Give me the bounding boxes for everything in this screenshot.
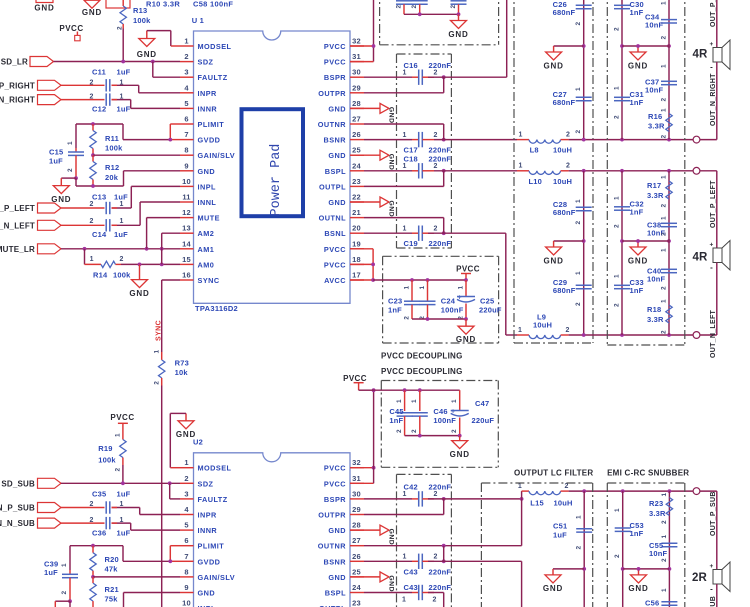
svg-text:PLIMIT: PLIMIT <box>198 120 225 129</box>
svg-text:220uF: 220uF <box>479 305 502 314</box>
svg-text:GND: GND <box>198 589 216 598</box>
svg-text:GND: GND <box>450 450 470 459</box>
svg-text:20k: 20k <box>105 173 119 182</box>
svg-text:75k: 75k <box>105 595 119 604</box>
svg-text:2: 2 <box>614 115 621 119</box>
svg-text:31: 31 <box>352 474 361 483</box>
svg-text:C35: C35 <box>92 490 106 499</box>
svg-text:GND: GND <box>544 61 564 70</box>
svg-text:C18: C18 <box>404 155 418 164</box>
svg-text:1: 1 <box>661 535 668 539</box>
svg-text:PVCC: PVCC <box>59 24 83 33</box>
svg-text:6: 6 <box>184 115 188 124</box>
svg-text:PVCC: PVCC <box>456 265 480 274</box>
svg-text:2: 2 <box>433 69 437 76</box>
svg-text:6: 6 <box>184 536 188 545</box>
svg-text:2: 2 <box>661 232 668 236</box>
svg-text:-: - <box>710 63 713 72</box>
svg-text:10uH: 10uH <box>553 177 572 186</box>
svg-text:OUT_N_RIGHT: OUT_N_RIGHT <box>710 73 717 126</box>
svg-text:INNR: INNR <box>198 104 218 113</box>
svg-text:680nF: 680nF <box>553 208 576 217</box>
svg-text:1: 1 <box>575 271 582 275</box>
svg-text:1: 1 <box>458 286 465 290</box>
svg-text:2: 2 <box>564 483 568 490</box>
svg-text:C13: C13 <box>92 193 106 202</box>
svg-text:R14: R14 <box>93 270 108 279</box>
svg-text:2: 2 <box>89 218 93 225</box>
svg-text:PVCC: PVCC <box>324 464 346 473</box>
svg-text:GND: GND <box>129 289 149 298</box>
svg-text:C24: C24 <box>441 297 456 306</box>
svg-text:100k: 100k <box>113 270 131 279</box>
svg-text:C23: C23 <box>388 297 402 306</box>
svg-text:PVCC: PVCC <box>110 413 134 422</box>
svg-text:2: 2 <box>411 429 418 433</box>
svg-text:INPR: INPR <box>198 89 218 98</box>
svg-text:1: 1 <box>661 1 668 5</box>
svg-text:10uH: 10uH <box>554 499 573 508</box>
svg-text:2: 2 <box>661 330 668 334</box>
svg-text:2: 2 <box>67 168 74 172</box>
svg-text:2: 2 <box>184 52 188 61</box>
svg-text:2: 2 <box>450 5 457 9</box>
svg-text:23: 23 <box>352 177 361 186</box>
svg-text:1nF: 1nF <box>630 208 644 217</box>
svg-text:27: 27 <box>352 536 361 545</box>
svg-text:5: 5 <box>184 521 188 530</box>
svg-text:AVCC: AVCC <box>324 276 346 285</box>
svg-text:20: 20 <box>352 224 361 233</box>
svg-text:PVCC: PVCC <box>324 260 346 269</box>
svg-text:2: 2 <box>614 554 621 558</box>
svg-text:30: 30 <box>352 68 361 77</box>
svg-text:220nF: 220nF <box>429 61 452 70</box>
svg-text:C15: C15 <box>49 148 63 157</box>
svg-text:GVDD: GVDD <box>198 557 221 566</box>
svg-text:17: 17 <box>352 271 361 280</box>
svg-text:2: 2 <box>661 135 668 139</box>
svg-text:24: 24 <box>352 583 361 592</box>
svg-text:1: 1 <box>518 131 522 138</box>
svg-text:1: 1 <box>518 327 522 334</box>
svg-text:100nF: 100nF <box>441 305 464 314</box>
svg-text:1nF: 1nF <box>630 98 644 107</box>
svg-text:+: + <box>710 41 714 48</box>
svg-text:24: 24 <box>352 161 361 170</box>
svg-text:100k: 100k <box>105 144 123 153</box>
svg-text:PLIMIT: PLIMIT <box>198 542 225 551</box>
svg-text:2: 2 <box>575 302 582 306</box>
svg-text:2: 2 <box>433 132 437 139</box>
svg-text:2: 2 <box>396 5 403 9</box>
svg-text:+: + <box>451 408 455 415</box>
svg-text:1: 1 <box>119 79 123 86</box>
svg-text:PVCC: PVCC <box>324 479 346 488</box>
svg-text:9: 9 <box>184 583 188 592</box>
svg-text:2: 2 <box>89 94 93 101</box>
svg-text:EMI C-RC SNUBBER: EMI C-RC SNUBBER <box>607 469 689 478</box>
svg-text:1: 1 <box>396 399 403 403</box>
svg-text:2: 2 <box>89 501 93 508</box>
svg-text:1uF: 1uF <box>117 490 131 499</box>
svg-text:1: 1 <box>576 515 583 519</box>
svg-text:4: 4 <box>184 83 189 92</box>
svg-text:R73: R73 <box>175 359 189 368</box>
svg-text:2: 2 <box>120 256 124 263</box>
svg-text:OUT_N_SUB: OUT_N_SUB <box>710 596 717 607</box>
svg-text:TPA3116D2: TPA3116D2 <box>195 304 238 313</box>
svg-text:-: - <box>710 263 713 272</box>
svg-text:R21: R21 <box>105 585 119 594</box>
svg-text:AM0: AM0 <box>198 260 215 269</box>
svg-text:BSPR: BSPR <box>324 73 346 82</box>
svg-text:1nF: 1nF <box>630 8 644 17</box>
svg-text:+: + <box>710 563 714 570</box>
svg-text:220nF: 220nF <box>429 146 452 155</box>
svg-text:GVDD: GVDD <box>198 136 221 145</box>
svg-text:1: 1 <box>119 517 123 524</box>
svg-text:GND: GND <box>628 584 648 593</box>
svg-text:2: 2 <box>396 429 403 433</box>
svg-text:1uF: 1uF <box>49 157 63 166</box>
svg-text:OUTPUT LC FILTER: OUTPUT LC FILTER <box>514 469 593 478</box>
svg-text:4: 4 <box>184 505 189 514</box>
svg-text:1: 1 <box>115 433 122 437</box>
svg-text:1: 1 <box>119 218 123 225</box>
svg-text:N_P_RIGHT: N_P_RIGHT <box>0 81 35 90</box>
svg-text:14: 14 <box>182 239 191 248</box>
svg-text:1: 1 <box>661 216 668 220</box>
svg-text:2: 2 <box>566 131 570 138</box>
svg-text:PVCC: PVCC <box>324 58 346 67</box>
svg-text:SD_LR: SD_LR <box>1 58 28 67</box>
svg-text:2: 2 <box>661 204 668 208</box>
svg-text:BSNR: BSNR <box>324 136 347 145</box>
svg-text:2: 2 <box>614 303 621 307</box>
svg-text:GND: GND <box>34 4 54 13</box>
svg-text:INNR: INNR <box>198 526 218 535</box>
svg-text:+: + <box>457 294 461 301</box>
svg-text:GND: GND <box>328 526 346 535</box>
svg-text:30: 30 <box>352 489 361 498</box>
svg-text:1nF: 1nF <box>389 416 403 425</box>
svg-text:29: 29 <box>352 505 361 514</box>
svg-text:22: 22 <box>352 193 361 202</box>
svg-text:GND: GND <box>388 201 395 218</box>
svg-text:1uF: 1uF <box>117 105 131 114</box>
svg-text:GND: GND <box>388 107 395 124</box>
svg-text:7: 7 <box>184 552 188 561</box>
svg-text:26: 26 <box>352 130 361 139</box>
svg-text:1: 1 <box>451 399 458 403</box>
svg-text:15: 15 <box>182 255 191 264</box>
svg-text:1: 1 <box>154 350 161 354</box>
svg-text:R18: R18 <box>647 305 661 314</box>
svg-text:2: 2 <box>566 163 570 170</box>
svg-text:Power Pad: Power Pad <box>269 144 284 217</box>
svg-text:1: 1 <box>67 141 74 145</box>
svg-text:32: 32 <box>352 37 361 46</box>
svg-text:C58 100nF: C58 100nF <box>193 0 233 9</box>
svg-text:2: 2 <box>575 130 582 134</box>
svg-text:1: 1 <box>119 201 123 208</box>
svg-text:2: 2 <box>433 163 437 170</box>
svg-text:1: 1 <box>575 199 582 203</box>
svg-text:GND: GND <box>328 573 346 582</box>
svg-text:-: - <box>710 585 713 594</box>
svg-text:1: 1 <box>402 554 406 561</box>
svg-text:2: 2 <box>89 201 93 208</box>
svg-text:1: 1 <box>661 108 668 112</box>
svg-text:R16: R16 <box>648 112 662 121</box>
svg-text:1: 1 <box>575 87 582 91</box>
svg-text:GND: GND <box>328 198 346 207</box>
svg-text:GND: GND <box>388 154 395 171</box>
svg-text:7: 7 <box>184 130 188 139</box>
svg-text:N_P_LEFT: N_P_LEFT <box>0 204 35 213</box>
svg-text:GND: GND <box>543 584 563 593</box>
svg-text:1: 1 <box>661 493 668 497</box>
svg-text:N_N_LEFT: N_N_LEFT <box>0 221 35 230</box>
svg-text:680nF: 680nF <box>553 8 576 17</box>
svg-text:C12: C12 <box>92 105 106 114</box>
svg-text:1: 1 <box>402 69 406 76</box>
svg-text:BSPR: BSPR <box>324 495 346 504</box>
svg-text:1uF: 1uF <box>553 530 567 539</box>
svg-text:1: 1 <box>614 274 621 278</box>
svg-text:GND: GND <box>137 50 157 59</box>
svg-text:PVCC DECOUPLING: PVCC DECOUPLING <box>381 367 463 376</box>
svg-text:PVCC: PVCC <box>343 374 367 383</box>
svg-text:2: 2 <box>575 22 582 26</box>
svg-text:GND: GND <box>82 8 102 17</box>
svg-text:OUT_N_LEFT: OUT_N_LEFT <box>710 309 717 358</box>
svg-text:32: 32 <box>352 458 361 467</box>
svg-text:1: 1 <box>518 163 522 170</box>
svg-text:PVCC: PVCC <box>324 42 346 51</box>
svg-text:2: 2 <box>661 520 668 524</box>
svg-text:10nF: 10nF <box>645 86 664 95</box>
svg-text:GAIN/SLV: GAIN/SLV <box>198 573 236 582</box>
svg-text:1: 1 <box>119 501 123 508</box>
svg-text:C47: C47 <box>475 399 489 408</box>
svg-text:21: 21 <box>352 208 361 217</box>
svg-text:OUTPL: OUTPL <box>319 182 346 191</box>
svg-text:2: 2 <box>576 546 583 550</box>
svg-text:10uH: 10uH <box>533 321 552 330</box>
svg-text:U 1: U 1 <box>192 16 204 25</box>
svg-text:220uF: 220uF <box>472 416 495 425</box>
svg-text:28: 28 <box>352 521 361 530</box>
svg-text:SDZ: SDZ <box>198 479 214 488</box>
svg-text:28: 28 <box>352 99 361 108</box>
svg-text:3.3R: 3.3R <box>649 509 666 518</box>
svg-text:C14: C14 <box>92 230 107 239</box>
svg-text:SYNC: SYNC <box>198 276 220 285</box>
svg-text:R19: R19 <box>98 444 112 453</box>
svg-text:R20: R20 <box>105 555 119 564</box>
svg-text:R12: R12 <box>105 163 119 172</box>
svg-text:C43: C43 <box>404 567 418 576</box>
svg-text:OUTPR: OUTPR <box>318 89 346 98</box>
svg-text:220nF: 220nF <box>429 583 452 592</box>
svg-text:R10 3.3R: R10 3.3R <box>146 0 180 9</box>
svg-text:25: 25 <box>352 146 361 155</box>
svg-text:OUT_P_RIGHT: OUT_P_RIGHT <box>710 0 717 27</box>
svg-text:GND: GND <box>328 151 346 160</box>
svg-text:IN_N_RIGHT: IN_N_RIGHT <box>0 96 35 105</box>
svg-text:10nF: 10nF <box>645 20 664 29</box>
svg-text:2: 2 <box>661 286 668 290</box>
svg-text:1: 1 <box>614 86 621 90</box>
svg-text:29: 29 <box>352 83 361 92</box>
svg-text:13: 13 <box>182 224 191 233</box>
svg-text:N_P_SUB: N_P_SUB <box>0 504 35 513</box>
svg-text:10nF: 10nF <box>649 549 668 558</box>
svg-text:1: 1 <box>90 256 94 263</box>
svg-text:1: 1 <box>119 94 123 101</box>
svg-text:31: 31 <box>352 52 361 61</box>
svg-text:1: 1 <box>402 132 406 139</box>
svg-text:OUT_P_LEFT: OUT_P_LEFT <box>710 180 717 228</box>
svg-text:1uF: 1uF <box>44 568 58 577</box>
svg-text:GND: GND <box>456 335 476 344</box>
svg-text:R11: R11 <box>105 134 119 143</box>
svg-text:INPL: INPL <box>198 182 217 191</box>
svg-text:100k: 100k <box>133 16 151 25</box>
svg-text:2: 2 <box>433 225 437 232</box>
svg-text:25: 25 <box>352 567 361 576</box>
svg-text:PVCC: PVCC <box>324 245 346 254</box>
svg-text:2: 2 <box>433 554 437 561</box>
svg-text:1nF: 1nF <box>630 529 644 538</box>
svg-text:2R: 2R <box>692 572 708 584</box>
svg-text:2: 2 <box>614 224 621 228</box>
svg-text:BSPL: BSPL <box>325 167 346 176</box>
svg-text:MODSEL: MODSEL <box>198 42 232 51</box>
svg-text:1: 1 <box>614 196 621 200</box>
svg-text:1: 1 <box>402 163 406 170</box>
svg-text:PVCC DECOUPLING: PVCC DECOUPLING <box>381 352 463 361</box>
svg-text:GAIN/SLV: GAIN/SLV <box>198 151 236 160</box>
svg-text:2: 2 <box>404 316 411 320</box>
svg-text:GND: GND <box>388 575 395 592</box>
svg-text:C51: C51 <box>553 521 567 530</box>
svg-text:680nF: 680nF <box>553 98 576 107</box>
svg-text:220nF: 220nF <box>429 483 452 492</box>
svg-text:C36: C36 <box>92 529 106 538</box>
svg-text:1: 1 <box>402 491 406 498</box>
svg-text:2: 2 <box>661 558 668 562</box>
svg-text:C17: C17 <box>404 146 418 155</box>
svg-text:1: 1 <box>404 286 411 290</box>
svg-text:1: 1 <box>661 299 668 303</box>
svg-text:R23: R23 <box>649 499 663 508</box>
svg-text:BSNR: BSNR <box>324 557 347 566</box>
svg-text:INNL: INNL <box>198 198 217 207</box>
svg-text:INPR: INPR <box>198 511 218 520</box>
svg-text:1: 1 <box>402 225 406 232</box>
svg-text:1: 1 <box>661 248 668 252</box>
svg-text:2: 2 <box>89 517 93 524</box>
svg-text:C45: C45 <box>389 407 403 416</box>
svg-text:9: 9 <box>184 161 188 170</box>
svg-text:2: 2 <box>661 36 668 40</box>
svg-text:2: 2 <box>154 381 161 385</box>
svg-text:220nF: 220nF <box>429 155 452 164</box>
svg-text:2: 2 <box>61 591 68 595</box>
svg-text:10: 10 <box>182 599 191 607</box>
svg-text:1uF: 1uF <box>114 230 128 239</box>
svg-text:2: 2 <box>117 26 124 30</box>
svg-text:C43: C43 <box>404 583 418 592</box>
svg-text:18: 18 <box>352 255 361 264</box>
svg-text:4R: 4R <box>692 252 708 264</box>
svg-text:C42: C42 <box>404 483 418 492</box>
svg-text:1: 1 <box>614 508 621 512</box>
svg-text:1: 1 <box>61 563 68 567</box>
svg-text:3.3R: 3.3R <box>648 122 665 131</box>
svg-text:OUTNL: OUTNL <box>319 214 346 223</box>
svg-text:MUTE_LR: MUTE_LR <box>0 245 35 254</box>
svg-text:2: 2 <box>115 468 122 472</box>
svg-text:4R: 4R <box>692 49 708 61</box>
svg-text:GND: GND <box>628 61 648 70</box>
svg-text:3: 3 <box>184 489 188 498</box>
svg-text:GND: GND <box>198 167 216 176</box>
svg-text:C11: C11 <box>92 68 106 77</box>
svg-text:OUTNR: OUTNR <box>318 120 346 129</box>
svg-text:L10: L10 <box>529 177 543 186</box>
svg-text:+: + <box>710 242 714 249</box>
svg-text:BSPL: BSPL <box>325 589 346 598</box>
svg-text:C46: C46 <box>433 407 447 416</box>
svg-text:N_N_SUB: N_N_SUB <box>0 519 35 528</box>
svg-text:2: 2 <box>411 5 418 9</box>
svg-text:AM1: AM1 <box>198 245 215 254</box>
svg-text:L8: L8 <box>530 146 539 155</box>
svg-text:R13: R13 <box>133 6 147 15</box>
svg-text:BSNL: BSNL <box>324 229 346 238</box>
svg-text:2: 2 <box>565 327 569 334</box>
svg-text:R17: R17 <box>647 181 661 190</box>
svg-text:11: 11 <box>182 193 190 202</box>
svg-text:220nF: 220nF <box>429 567 452 576</box>
svg-text:C19: C19 <box>404 239 418 248</box>
svg-text:5: 5 <box>184 99 188 108</box>
svg-text:GND: GND <box>176 430 196 439</box>
svg-text:3.3R: 3.3R <box>647 315 664 324</box>
svg-text:2: 2 <box>661 98 668 102</box>
svg-text:12: 12 <box>182 208 191 217</box>
svg-text:10k: 10k <box>175 368 189 377</box>
svg-text:27: 27 <box>352 115 361 124</box>
svg-text:10nF: 10nF <box>647 275 666 284</box>
svg-text:1: 1 <box>661 64 668 68</box>
svg-text:8: 8 <box>184 567 188 576</box>
svg-text:C16: C16 <box>404 61 418 70</box>
svg-text:1uF: 1uF <box>117 68 131 77</box>
svg-text:1uF: 1uF <box>117 529 131 538</box>
svg-text:GND: GND <box>544 256 564 265</box>
svg-text:100nF: 100nF <box>433 416 456 425</box>
svg-text:GND: GND <box>388 529 395 546</box>
svg-text:FAULTZ: FAULTZ <box>198 495 228 504</box>
svg-text:1: 1 <box>419 286 426 290</box>
svg-text:1: 1 <box>184 37 188 46</box>
svg-text:47k: 47k <box>105 565 119 574</box>
